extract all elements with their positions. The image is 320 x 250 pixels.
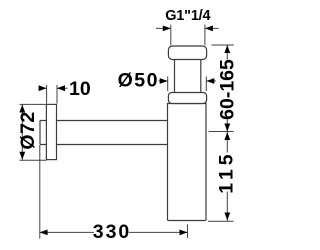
pipe axis extension line	[209, 131, 234, 133]
dia72 bottom arrow	[19, 152, 25, 160]
115 top arrow	[224, 132, 230, 140]
dia72 dimension line	[21, 105, 23, 160]
60-165 bottom arrow	[224, 124, 230, 132]
dia72 extension lines	[20, 104, 47, 160]
dia50 right arrow	[206, 78, 214, 84]
60-165 top extension line	[212, 44, 234, 46]
60-165 top arrow	[224, 45, 230, 53]
G1 dimension line	[156, 27, 219, 29]
G1 right arrow	[205, 26, 213, 32]
330 extension lines	[40, 145, 188, 239]
dia50 leader lines	[159, 80, 216, 82]
330 left arrow	[40, 230, 48, 236]
body bottom extension line	[208, 220, 234, 222]
115 bottom arrow	[224, 213, 230, 221]
330 right arrow	[180, 230, 188, 236]
dia50 ticks	[168, 77, 207, 92]
10 right arrow	[57, 85, 65, 91]
trap body	[168, 104, 207, 221]
dia50 left arrow	[160, 78, 168, 84]
svg-text:G1"1/4: G1"1/4	[165, 8, 210, 24]
G1 dimension extension lines	[171, 25, 205, 46]
lower nut	[168, 93, 206, 104]
horizontal pipe	[40, 121, 168, 145]
10 extension lines	[47, 85, 57, 104]
330 dimension line	[40, 231, 188, 233]
svg-text:115: 115	[216, 151, 238, 194]
svg-text:330: 330	[93, 221, 132, 243]
upper nut	[168, 46, 206, 60]
dia72 top arrow	[19, 105, 25, 113]
10 dimension line	[39, 87, 68, 89]
svg-text:10: 10	[69, 78, 91, 100]
wall flange	[46, 104, 56, 159]
10 left arrow	[39, 85, 47, 91]
svg-text:60-165: 60-165	[217, 59, 239, 120]
G1 left arrow	[163, 26, 171, 32]
svg-text:Ø72: Ø72	[17, 111, 39, 149]
vertical pipe	[175, 60, 201, 93]
115 dimension line	[226, 132, 228, 221]
svg-text:Ø50: Ø50	[118, 69, 159, 91]
60-165 dimension line	[226, 45, 228, 132]
